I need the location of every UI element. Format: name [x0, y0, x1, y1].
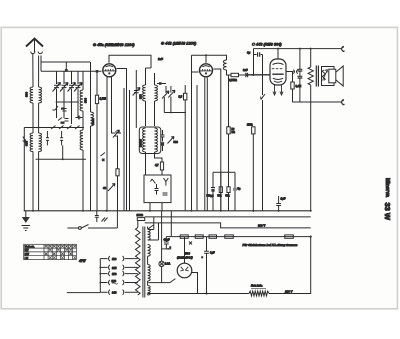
secondary winding HT [148, 265, 151, 286]
antenna [26, 39, 43, 54]
transformer core [143, 227, 145, 298]
coil L3 secondary column [39, 56, 42, 211]
resistor R13 [180, 235, 188, 238]
resistor R10 [291, 72, 301, 103]
tube U3 C443 [270, 59, 286, 85]
svg-text:2MΩ: 2MΩ [247, 124, 252, 127]
capacitor C21 [95, 211, 99, 222]
speaker return line [293, 101, 342, 103]
wire antenna feed to buses [40, 56, 42, 72]
resistor R5 [229, 73, 245, 82]
svg-text:1nF: 1nF [243, 68, 248, 72]
svg-text:1nF: 1nF [158, 57, 163, 61]
power transformer T3 primary [137, 221, 139, 227]
wire [146, 67, 152, 69]
wire antenna left drop [32, 54, 34, 88]
AF network bracket [213, 171, 235, 173]
secondary winding 4V [148, 217, 159, 240]
tone unit box [144, 175, 171, 211]
node [205, 54, 207, 56]
rectifier tube U4 [148, 237, 197, 294]
svg-text:Wellenb.: Wellenb. [25, 245, 36, 248]
variable capacitor C12 [168, 86, 175, 113]
svg-text:600: 600 [25, 92, 29, 97]
wire joining row [164, 112, 185, 114]
wave switch row [24, 126, 84, 130]
node [159, 82, 162, 85]
connector hook [342, 99, 345, 105]
svg-text:240: 240 [112, 291, 117, 295]
svg-text:C 443 (RES 364): C 443 (RES 364) [252, 41, 282, 46]
variable capacitor C1 [53, 71, 61, 106]
svg-text:220: 220 [112, 279, 117, 283]
resistor R7 [247, 124, 255, 211]
capacitor C17 3uF [247, 49, 263, 75]
wire anode bracket [109, 55, 151, 68]
mains tap 220 [100, 279, 138, 285]
resistor R6 [227, 75, 235, 172]
variable capacitor C15 [168, 137, 179, 145]
svg-text:100Ω: 100Ω [137, 213, 143, 217]
tube U1 G45a [103, 64, 116, 77]
svg-text:40μF: 40μF [164, 238, 170, 242]
voltage table [24, 244, 77, 259]
bottom mains line [148, 293, 249, 295]
heater line B [145, 223, 311, 228]
wire U2 grid [192, 71, 199, 73]
variable capacitor C4 [74, 71, 82, 106]
mains rail [99, 259, 101, 293]
svg-text:600: 600 [84, 98, 88, 103]
capacitor C5 padding [76, 116, 83, 120]
wire U3 grid left [247, 74, 270, 76]
band switch contacts row1 [53, 106, 67, 118]
wire long vertical [123, 88, 125, 211]
wire long vertical [129, 90, 131, 211]
contact arrows [102, 218, 108, 222]
IF transformer T1 secondary [155, 73, 158, 126]
resistor R2 [116, 136, 119, 211]
svg-text:1μF: 1μF [281, 197, 286, 201]
mains feed [67, 292, 101, 294]
svg-text:220 V: 220 V [258, 224, 265, 228]
resistor R4 [155, 162, 164, 175]
HT line [253, 48, 341, 50]
svg-text:G 442 (MEHS 1206): G 442 (MEHS 1206) [161, 41, 197, 46]
mains tap 125 [100, 265, 138, 270]
variable capacitor C10 [133, 70, 140, 128]
capacitor C25 [102, 159, 105, 162]
svg-text:1,5: 1,5 [179, 95, 183, 99]
svg-text:G 45a (SIEMENS 1264): G 45a (SIEMENS 1264) [93, 42, 135, 47]
node [299, 48, 301, 50]
capacitor C22 1uF [276, 196, 286, 211]
node [310, 48, 312, 50]
capacitor C16 [243, 68, 270, 77]
mains tap 150 [100, 271, 138, 276]
IF transformer T2 secondary [155, 128, 163, 162]
svg-text:1,5M: 1,5M [100, 97, 107, 101]
capacitor C13 [161, 130, 165, 142]
wire anode bracket U2 [192, 55, 227, 63]
IF transformer T1 primary [139, 68, 146, 126]
wire U2 right [213, 69, 220, 211]
capacitor C23 40uF [162, 237, 172, 250]
svg-text:50k: 50k [226, 195, 231, 198]
ground symbol [22, 211, 31, 231]
coil L5 oscillator feedback [91, 62, 94, 211]
wire to ground bus [32, 152, 34, 211]
wire [32, 103, 34, 133]
wire bus y71.3 [41, 70, 102, 72]
svg-text:0,7MΩ: 0,7MΩ [229, 78, 237, 82]
node [170, 112, 172, 114]
resistor R14 [195, 235, 203, 238]
speaker voice coil [322, 67, 335, 86]
heater line A [145, 216, 311, 218]
resistor R18 ballast [249, 285, 269, 296]
svg-text:KW: KW [25, 249, 30, 252]
switch S2 grid leak [261, 55, 265, 211]
wire U3 anode out right [287, 71, 294, 73]
switch contact [101, 153, 106, 157]
svg-text:0,4M: 0,4M [296, 85, 302, 88]
node [184, 112, 186, 114]
resistor R8 [218, 171, 223, 211]
svg-text:125: 125 [112, 266, 117, 270]
wire to corner [269, 237, 311, 294]
wire bus y62 [41, 61, 90, 63]
svg-text:10000: 10000 [139, 139, 143, 147]
B+ rail [170, 211, 172, 237]
AVC diode branch [23, 128, 25, 211]
svg-text:47W: 47W [79, 259, 87, 263]
variable capacitor C11 [162, 86, 169, 113]
chassis ground bus [24, 210, 311, 212]
node [252, 74, 254, 76]
svg-text:3μ: 3μ [247, 51, 251, 55]
IF can shield [139, 127, 161, 154]
contact blob [61, 108, 65, 110]
secondary winding heater [148, 245, 151, 265]
coil L4 oscillator [80, 71, 83, 211]
capacitor C7 [60, 131, 63, 145]
wire tube bottom leads [106, 76, 108, 211]
mains tap 110 [100, 256, 138, 261]
capacitor C14 electrolytic [161, 142, 164, 146]
resistor R16 [225, 235, 234, 238]
capacitor C20 [298, 49, 303, 102]
node [310, 236, 312, 238]
pilot lamp [159, 211, 170, 283]
svg-text:110: 110 [112, 257, 117, 261]
mains switch S3 [67, 211, 117, 230]
svg-text:kΩ: kΩ [232, 131, 235, 134]
wire U3 anode [277, 49, 279, 60]
capacitor C19 [234, 172, 241, 211]
svg-text:150: 150 [112, 272, 117, 276]
connector hook [342, 46, 345, 52]
svg-text:500μμ: 500μμ [207, 195, 214, 198]
svg-text:LW: LW [25, 257, 29, 260]
capacitor C24 8uF [202, 237, 216, 295]
svg-text:600: 600 [139, 94, 143, 99]
node [245, 73, 248, 76]
svg-text:8μF: 8μF [210, 251, 215, 255]
choke L6 [223, 60, 231, 75]
capacitor C6 [46, 131, 49, 145]
svg-text:Für Gleichstrom bei X-Leitung: Für Gleichstrom bei X-Leitung trennen [243, 243, 298, 247]
svg-text:500: 500 [174, 140, 179, 144]
svg-text:Minerva: Minerva [384, 178, 390, 197]
svg-text:Netz 2x1a: Netz 2x1a [251, 285, 263, 288]
wire [196, 85, 198, 211]
resistor R15 [209, 235, 217, 238]
variable capacitor C9 [103, 184, 115, 192]
svg-text:220 V: 220 V [284, 289, 293, 293]
speaker cone [329, 66, 343, 86]
variable capacitor C2 [60, 71, 68, 106]
resistor R3 [179, 85, 187, 211]
band switch contacts row2 [58, 106, 78, 124]
connector plug pair [293, 70, 298, 74]
wire long vertical left of U2 [191, 55, 193, 211]
node grid junction [65, 69, 68, 72]
speaker transformer core [316, 66, 318, 87]
resistor R9 [226, 171, 231, 211]
tube U2 G442 [200, 64, 213, 77]
node [32, 210, 34, 212]
svg-text:33 W: 33 W [383, 203, 392, 221]
coil L1 antenna primary [30, 87, 33, 103]
wire row y159.3 [36, 158, 86, 160]
coil L2 [30, 133, 33, 152]
mains tap 240 [100, 290, 138, 295]
field coil R11 [308, 49, 313, 211]
resistor R17 [285, 235, 294, 238]
node [62, 158, 64, 160]
contact [149, 225, 154, 229]
svg-text:5000: 5000 [91, 118, 95, 125]
node [277, 48, 279, 50]
wire U3 cathode leads with arrows [273, 85, 283, 95]
contact blob [61, 122, 65, 124]
wire tube right [117, 69, 127, 211]
resistor R12 [137, 213, 145, 220]
svg-text:L6A: L6A [165, 262, 170, 266]
IF transformer T2 primary [139, 128, 146, 175]
secondary winding rectifier heater [148, 286, 151, 296]
wire U2 leads to bus [205, 78, 208, 211]
trimmer join line [57, 101, 79, 103]
resistor R1 [95, 70, 106, 211]
variable capacitor C8 [111, 130, 121, 138]
capacitor C18 [207, 172, 216, 211]
variable capacitor C3 [68, 71, 76, 106]
svg-text:50k: 50k [218, 195, 223, 198]
svg-text:MW: MW [25, 253, 30, 256]
svg-text:4,7: 4,7 [155, 164, 159, 167]
X mark [189, 242, 192, 245]
